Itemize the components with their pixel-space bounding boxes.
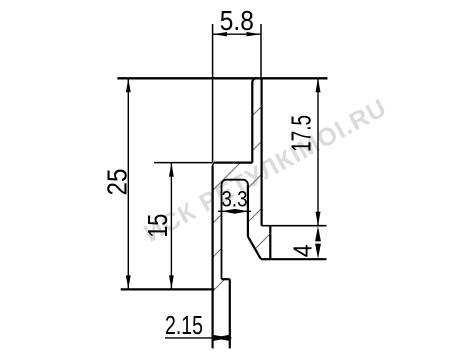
dimension 25 — [101, 78, 132, 289]
17.5/4 top extension (y=225.7) — [270, 225, 326, 227]
hatching — [188, 68, 300, 316]
fin right face — [261, 78, 263, 225]
left wall face — [212, 166, 214, 349]
chamfer — [248, 237, 261, 260]
profile outline — [213, 78, 271, 348]
svg-text:15: 15 — [142, 214, 173, 238]
fin left face — [252, 78, 256, 162]
5.8 right extension — [260, 24, 262, 78]
svg-text:5.8: 5.8 — [220, 5, 254, 36]
dimension 3.3 — [218, 187, 251, 214]
slot rounded top — [222, 180, 248, 185]
15 extension line — [154, 162, 213, 164]
foot right face — [269, 226, 271, 260]
slot left inner face — [221, 185, 223, 280]
dimension 5.8 — [213, 5, 261, 36]
tail right face — [229, 279, 231, 348]
svg-text:4: 4 — [288, 244, 318, 257]
svg-text:2.15: 2.15 — [165, 310, 203, 340]
slot right inner face — [247, 185, 249, 237]
top reference line — [117, 77, 327, 79]
4 bottom extension (y=259.2) — [270, 258, 326, 260]
svg-text:17.5: 17.5 — [286, 115, 317, 152]
dimension 4 — [288, 226, 321, 259]
step — [222, 278, 230, 280]
dimension 2.15 — [165, 310, 232, 341]
dimension 15 — [142, 163, 174, 290]
bottom datum line — [121, 288, 215, 290]
svg-text:3.3: 3.3 — [222, 187, 248, 212]
svg-text:25: 25 — [101, 169, 132, 196]
bottom face — [261, 258, 270, 260]
reference/extension lines — [117, 24, 327, 289]
fillet top-left of wall — [213, 163, 216, 166]
5.8 left extension — [212, 24, 214, 163]
svg-text:ИСК РЕТУЛКІМОІ.RU: ИСК РЕТУЛКІМОІ.RU — [140, 93, 392, 247]
dimension 17.5 — [286, 78, 321, 225]
foot top — [262, 225, 271, 227]
notch floor — [214, 162, 252, 164]
